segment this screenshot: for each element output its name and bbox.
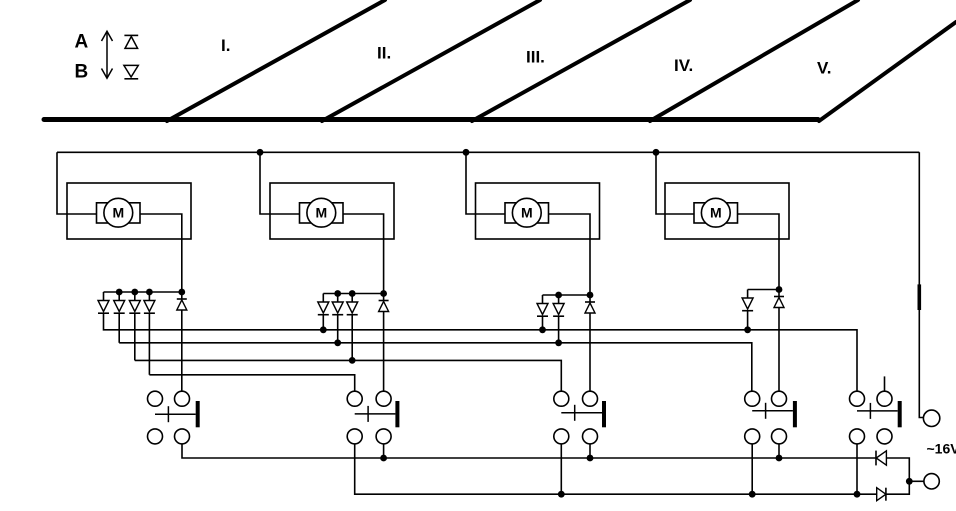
svg-text:II.: II. (377, 44, 391, 63)
svg-text:~16V: ~16V (927, 440, 956, 456)
svg-text:B: B (75, 61, 89, 82)
svg-text:I.: I. (221, 36, 230, 55)
svg-text:A: A (75, 31, 89, 52)
svg-text:M: M (315, 205, 327, 221)
svg-text:IV.: IV. (674, 56, 693, 75)
svg-text:M: M (710, 205, 722, 221)
svg-text:V.: V. (817, 59, 832, 78)
svg-text:M: M (521, 205, 533, 221)
svg-text:M: M (112, 205, 124, 221)
svg-text:III.: III. (526, 48, 545, 67)
